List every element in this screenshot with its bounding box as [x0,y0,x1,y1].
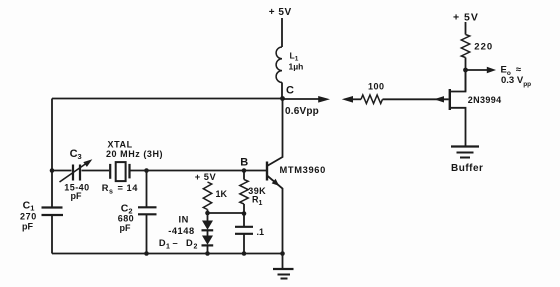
inductor L1 coil [276,47,282,82]
transistor Q1 collector [267,99,283,167]
svg-text:0.6Vpp: 0.6Vpp [285,106,319,117]
inductor L1 top lead [281,18,283,47]
transistor Q1 emitter arrowhead [272,179,280,186]
capacitor C1 plates [42,208,64,216]
arrowhead left (before 100 resistor) [342,96,353,103]
crystal XTAL body [116,162,126,181]
svg-text:.1: .1 [257,227,265,237]
svg-text:220: 220 [474,42,493,53]
wire left vertical (upper, above C1) [51,99,53,208]
resistor 220 zigzag [461,35,469,58]
crystal XTAL left plate [109,164,111,179]
diode D1 triangle [202,221,213,230]
svg-text:pF: pF [22,222,33,232]
wire R1 bottom to node [243,204,245,214]
node junction dot (1K bottom) [205,211,210,216]
node junction dot (left vertical / C3 rail) [50,168,55,173]
crystal XTAL right plate [128,164,130,179]
svg-text:+ 5V: + 5V [269,7,292,18]
diode D1 cathode bar [202,229,214,231]
wire top rail [52,98,283,100]
wire mid rail segment B (C3 to XTAL) [82,170,110,172]
svg-text:B: B [240,156,248,168]
wire bias node to R1 bottom [208,212,245,214]
svg-text:100: 100 [368,81,385,91]
capacitor .1 plates [235,227,253,234]
node B junction dot [242,168,247,173]
wire left vertical (lower, below C1) [51,216,53,254]
node junction dot (emitter / ground) [280,251,285,256]
svg-text:Buffer: Buffer [451,163,483,174]
node junction dot (diodes bottom rail) [205,251,210,256]
resistor 1K zigzag [203,182,211,209]
svg-text:+ 5V: + 5V [453,11,479,23]
wire 1K bottom to node [207,210,209,214]
ground (main) stem [282,254,284,269]
capacitor C3 variable plates [73,165,80,181]
inductor L1 bottom lead [281,82,283,98]
transistor Q2 drain lead [450,70,466,92]
node junction dot (C2 bottom rail) [144,251,149,256]
transistor Q2 source lead [450,108,466,147]
output arrowhead (Eo) [487,67,496,73]
wire from left arrowhead to 100 resistor [352,98,361,100]
svg-text:MTM3960: MTM3960 [280,165,326,175]
capacitor C2 plates [138,207,157,214]
capacitor C2 lead lower [146,215,148,254]
capacitor C2 lead upper [146,171,148,207]
wire node B to R1 top [243,171,245,180]
diode D2 triangle [202,236,213,245]
diode D2 lead / bottom [207,231,209,254]
node junction dot (XTAL right / C2) [144,168,149,173]
resistor 100 zigzag [361,95,382,104]
node C junction dot [280,96,285,101]
svg-text:-4148: -4148 [168,226,195,236]
capacitor C3 arrow [60,163,88,183]
node junction dot (220 / output) [463,68,468,73]
svg-text:20 MHz (3H): 20 MHz (3H) [106,149,163,159]
resistor 220 bottom lead [465,58,467,92]
capacitor .1 lead lower [243,234,245,254]
svg-text:270: 270 [20,212,37,222]
wire mid rail segment A (junction to C3) [52,170,72,172]
svg-text:1K: 1K [216,189,228,199]
svg-text:pF: pF [71,191,82,201]
arrowhead left (at gate of Q2) [434,96,444,102]
diode D2 cathode bar [202,244,214,246]
transistor Q1 emitter [267,176,283,254]
resistor R1 39K zigzag [240,180,248,204]
svg-text:1µh: 1µh [289,62,304,72]
node junction dot (.1 cap bottom rail) [242,251,247,256]
svg-text:pF: pF [120,223,131,233]
wire arrow-out shaft from node C [283,98,320,100]
resistor 220 top lead [465,22,467,35]
svg-text:XTAL: XTAL [108,139,133,149]
svg-text:680: 680 [118,214,134,224]
wire bottom rail [52,253,283,255]
transistor Q1 base bar [266,162,268,181]
capacitor C3 arrowhead [83,159,92,167]
svg-text:C: C [286,84,294,96]
diode D1 lead [207,213,209,221]
capacitor .1 lead upper [243,214,245,227]
arrowhead right (from node C) [318,96,330,103]
svg-text:IN: IN [179,214,190,224]
transistor Q2 gate bar [449,89,451,110]
wire output arrow shaft [466,69,489,71]
svg-text:+ 5V: + 5V [195,172,217,182]
svg-text:2N3994: 2N3994 [468,95,502,105]
ground (main) bars [273,268,294,270]
wire mid rail segment C (XTAL to base) [130,170,266,172]
wire 100 resistor to gate [383,98,449,100]
node junction dot (R1 bottom) [242,211,247,216]
ground (buffer) bars [451,145,479,147]
